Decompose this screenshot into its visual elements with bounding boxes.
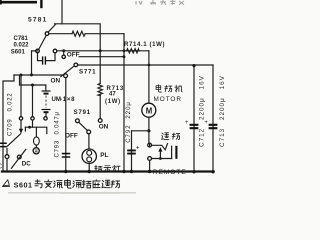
riser to jack contact 2	[32, 85, 34, 117]
svg-text:M: M	[146, 107, 153, 116]
junction dot ground at C713 end	[211, 170, 214, 173]
junction dot ground at PL	[88, 170, 91, 173]
switch S771 blade	[61, 65, 75, 76]
REMOTE jack top contact wire	[152, 144, 168, 150]
line A: S601 output to motor corner	[57, 50, 149, 52]
jack barrel oval	[24, 127, 26, 131]
battery feed line y=85	[20, 76, 46, 85]
DC switch stub A up	[6, 148, 8, 154]
C712 riser	[193, 66, 195, 172]
svg-text:ON: ON	[51, 77, 61, 84]
svg-text:C712 2200μ 16V: C712 2200μ 16V	[199, 75, 206, 147]
REMOTE jack bottom wire	[152, 158, 172, 160]
svg-text:+: +	[185, 120, 189, 126]
staircase to left edge	[3, 75, 14, 172]
svg-text:+: +	[204, 120, 208, 126]
capacitor C793 plates	[62, 154, 70, 157]
wire v2 (grounded riser)	[123, 34, 125, 172]
junction dot line B end	[123, 55, 126, 58]
capacitor C781 loop below contacts	[38, 53, 56, 61]
battery UM-1x8 top cell plates	[42, 90, 51, 92]
svg-text:OFF: OFF	[65, 133, 78, 140]
top wire continues to v2	[85, 33, 124, 35]
OFF contact circle	[62, 55, 65, 58]
svg-text:47: 47	[109, 92, 116, 98]
capacitor C781 plates	[43, 56, 46, 64]
junction dot at motor riser	[148, 64, 151, 67]
svg-text:PL: PL	[100, 152, 108, 159]
wire S791 center to PL lamp	[88, 134, 90, 149]
line C: S771 to capacitor rail	[78, 64, 213, 66]
cut-off remnant vertical tick	[40, 0, 42, 8]
wire c1 terminal down to battery node line	[32, 51, 38, 75]
wire v1: R713 branch	[99, 51, 101, 84]
ground bus (bottom wire)	[2, 170, 214, 172]
S791 blade	[79, 122, 88, 130]
S791 ON contact circle	[98, 119, 102, 123]
junction dot at C712 tap	[192, 64, 195, 67]
jack contact circle 3	[44, 117, 47, 120]
top wire from S781 contact to v2 corner	[49, 33, 72, 35]
DC jack frame line	[25, 127, 46, 133]
svg-text:OFF: OFF	[67, 52, 80, 59]
resistor (unlabelled) on top wire	[72, 31, 85, 36]
leaf swing to DC contact	[7, 134, 20, 146]
resistor R713 zigzag (vertical)	[98, 83, 102, 95]
DC switch contact B	[17, 155, 21, 159]
DC switch blade	[11, 149, 25, 168]
jack contact circle 1	[19, 117, 22, 120]
bottom caption S601...	[2, 180, 10, 187]
svg-text:DC: DC	[22, 160, 31, 167]
REMOTE jack bottom terminal	[148, 157, 152, 161]
capacitor C712 plates	[190, 125, 199, 128]
scan smudge bottom edge	[8, 192, 136, 194]
cut-off remnant tick at left edge top	[0, 0, 2, 5]
S601 contact c1	[36, 49, 40, 53]
REMOTE jack sleeve bracket	[171, 146, 173, 158]
label 指示灯	[95, 165, 120, 172]
battery dashed middle	[45, 96, 47, 109]
S601 pole A blade to S781	[39, 36, 46, 50]
capacitor C709 plates on left wire	[0, 143, 7, 146]
corner down to C713 riser	[212, 65, 214, 172]
svg-text:R714.1 (1W): R714.1 (1W)	[124, 41, 165, 48]
battery top hook	[45, 85, 47, 90]
svg-text:-1×8: -1×8	[60, 96, 75, 103]
S601 contact c2	[53, 49, 57, 53]
junction dot ground at C712	[192, 170, 195, 173]
S791 moving contact circle	[76, 119, 80, 123]
wire S781 blade tip to v1 top corner	[55, 24, 101, 51]
DC switch contact A	[5, 155, 9, 159]
jack moving leaf with arrow	[20, 120, 22, 130]
junction dot node line at x=21	[20, 74, 23, 77]
junction dot jack frame	[28, 126, 31, 129]
svg-text:C709 0.022: C709 0.022	[8, 92, 14, 136]
capacitor C792 plates	[127, 150, 136, 153]
jack contact 2 stub	[32, 120, 34, 127]
svg-text:ON: ON	[99, 123, 109, 130]
svg-text:C781: C781	[14, 36, 29, 42]
PL lamp to ground	[88, 163, 90, 171]
S771 right contact circle	[74, 63, 78, 67]
battery stub to jack contact 3	[45, 113, 47, 116]
junction dot ground at C792	[130, 170, 133, 173]
svg-text:+: +	[136, 145, 140, 152]
REMOTE jack arrow contact	[158, 147, 162, 151]
junction dot on battery node line	[30, 73, 33, 76]
switch S781 contact circle	[45, 32, 49, 36]
jack contact circle 2	[31, 117, 34, 120]
svg-text:S791: S791	[74, 109, 91, 116]
C792 riser	[131, 131, 133, 172]
riser from node line to jack contact 1	[20, 75, 22, 117]
PL lamp circle	[82, 149, 96, 163]
jack tip contact circle	[33, 148, 39, 154]
svg-text:S771: S771	[79, 69, 96, 76]
svg-text:(1W): (1W)	[105, 99, 121, 105]
svg-text:C: C	[0, 162, 2, 171]
junction dot ground at REMOTE	[148, 170, 151, 173]
capacitor C713 plates	[209, 125, 218, 128]
wire from top edge into S781 node	[61, 0, 63, 24]
label 电动机	[156, 85, 182, 92]
battery bottom cell plates	[42, 109, 51, 111]
svg-text:S601: S601	[11, 50, 26, 56]
REMOTE jack terminals to circuit	[149, 143, 151, 147]
REMOTE jack top terminal	[148, 143, 152, 147]
motor bottom wire	[148, 117, 150, 143]
junction dot ground at v2	[122, 170, 125, 173]
junction dot ground at C793	[64, 170, 67, 173]
motor circle	[142, 103, 156, 117]
page background	[0, 0, 268, 194]
junction dot line A at v1	[99, 49, 102, 52]
label 遥控	[162, 133, 180, 140]
junction dot line A at v2	[123, 49, 126, 52]
link to C792	[132, 130, 149, 132]
junction dot arrow post	[159, 157, 162, 160]
switch S781 blade	[48, 24, 55, 32]
faint clipped caption top right	[136, 0, 184, 5]
cut-off figure remnant: thick bar top-left	[0, 1, 37, 4]
motor riser from corner	[148, 51, 150, 104]
wire from S771 ON contact down (C793 rail)	[65, 78, 67, 172]
battery node line y=75	[14, 74, 64, 76]
svg-text:C713 2200μ 16V: C713 2200μ 16V	[219, 75, 226, 147]
v1 continues to S791 ON contact	[99, 95, 101, 118]
PL lamp filament	[87, 150, 92, 155]
S791 center terminal circle	[87, 130, 91, 134]
junction dot battery feed	[31, 84, 34, 87]
junction dot OFF stub	[62, 49, 65, 52]
OFF contact stub	[63, 51, 65, 55]
svg-text:MOTOR: MOTOR	[154, 96, 182, 103]
svg-text:0.022: 0.022	[14, 42, 30, 48]
DC switch stub A down to ground	[6, 159, 8, 171]
svg-text:C793 0.047μ: C793 0.047μ	[55, 111, 61, 157]
svg-text:REMOTE: REMOTE	[153, 169, 187, 176]
svg-text:5781: 5781	[28, 17, 47, 24]
junction dot motor bottom	[147, 129, 150, 132]
svg-text:S601: S601	[14, 180, 33, 189]
S771 left contact circle	[64, 74, 68, 78]
line B: OFF wire to v2	[79, 56, 124, 58]
resistor R714.1 zigzag	[127, 49, 140, 53]
